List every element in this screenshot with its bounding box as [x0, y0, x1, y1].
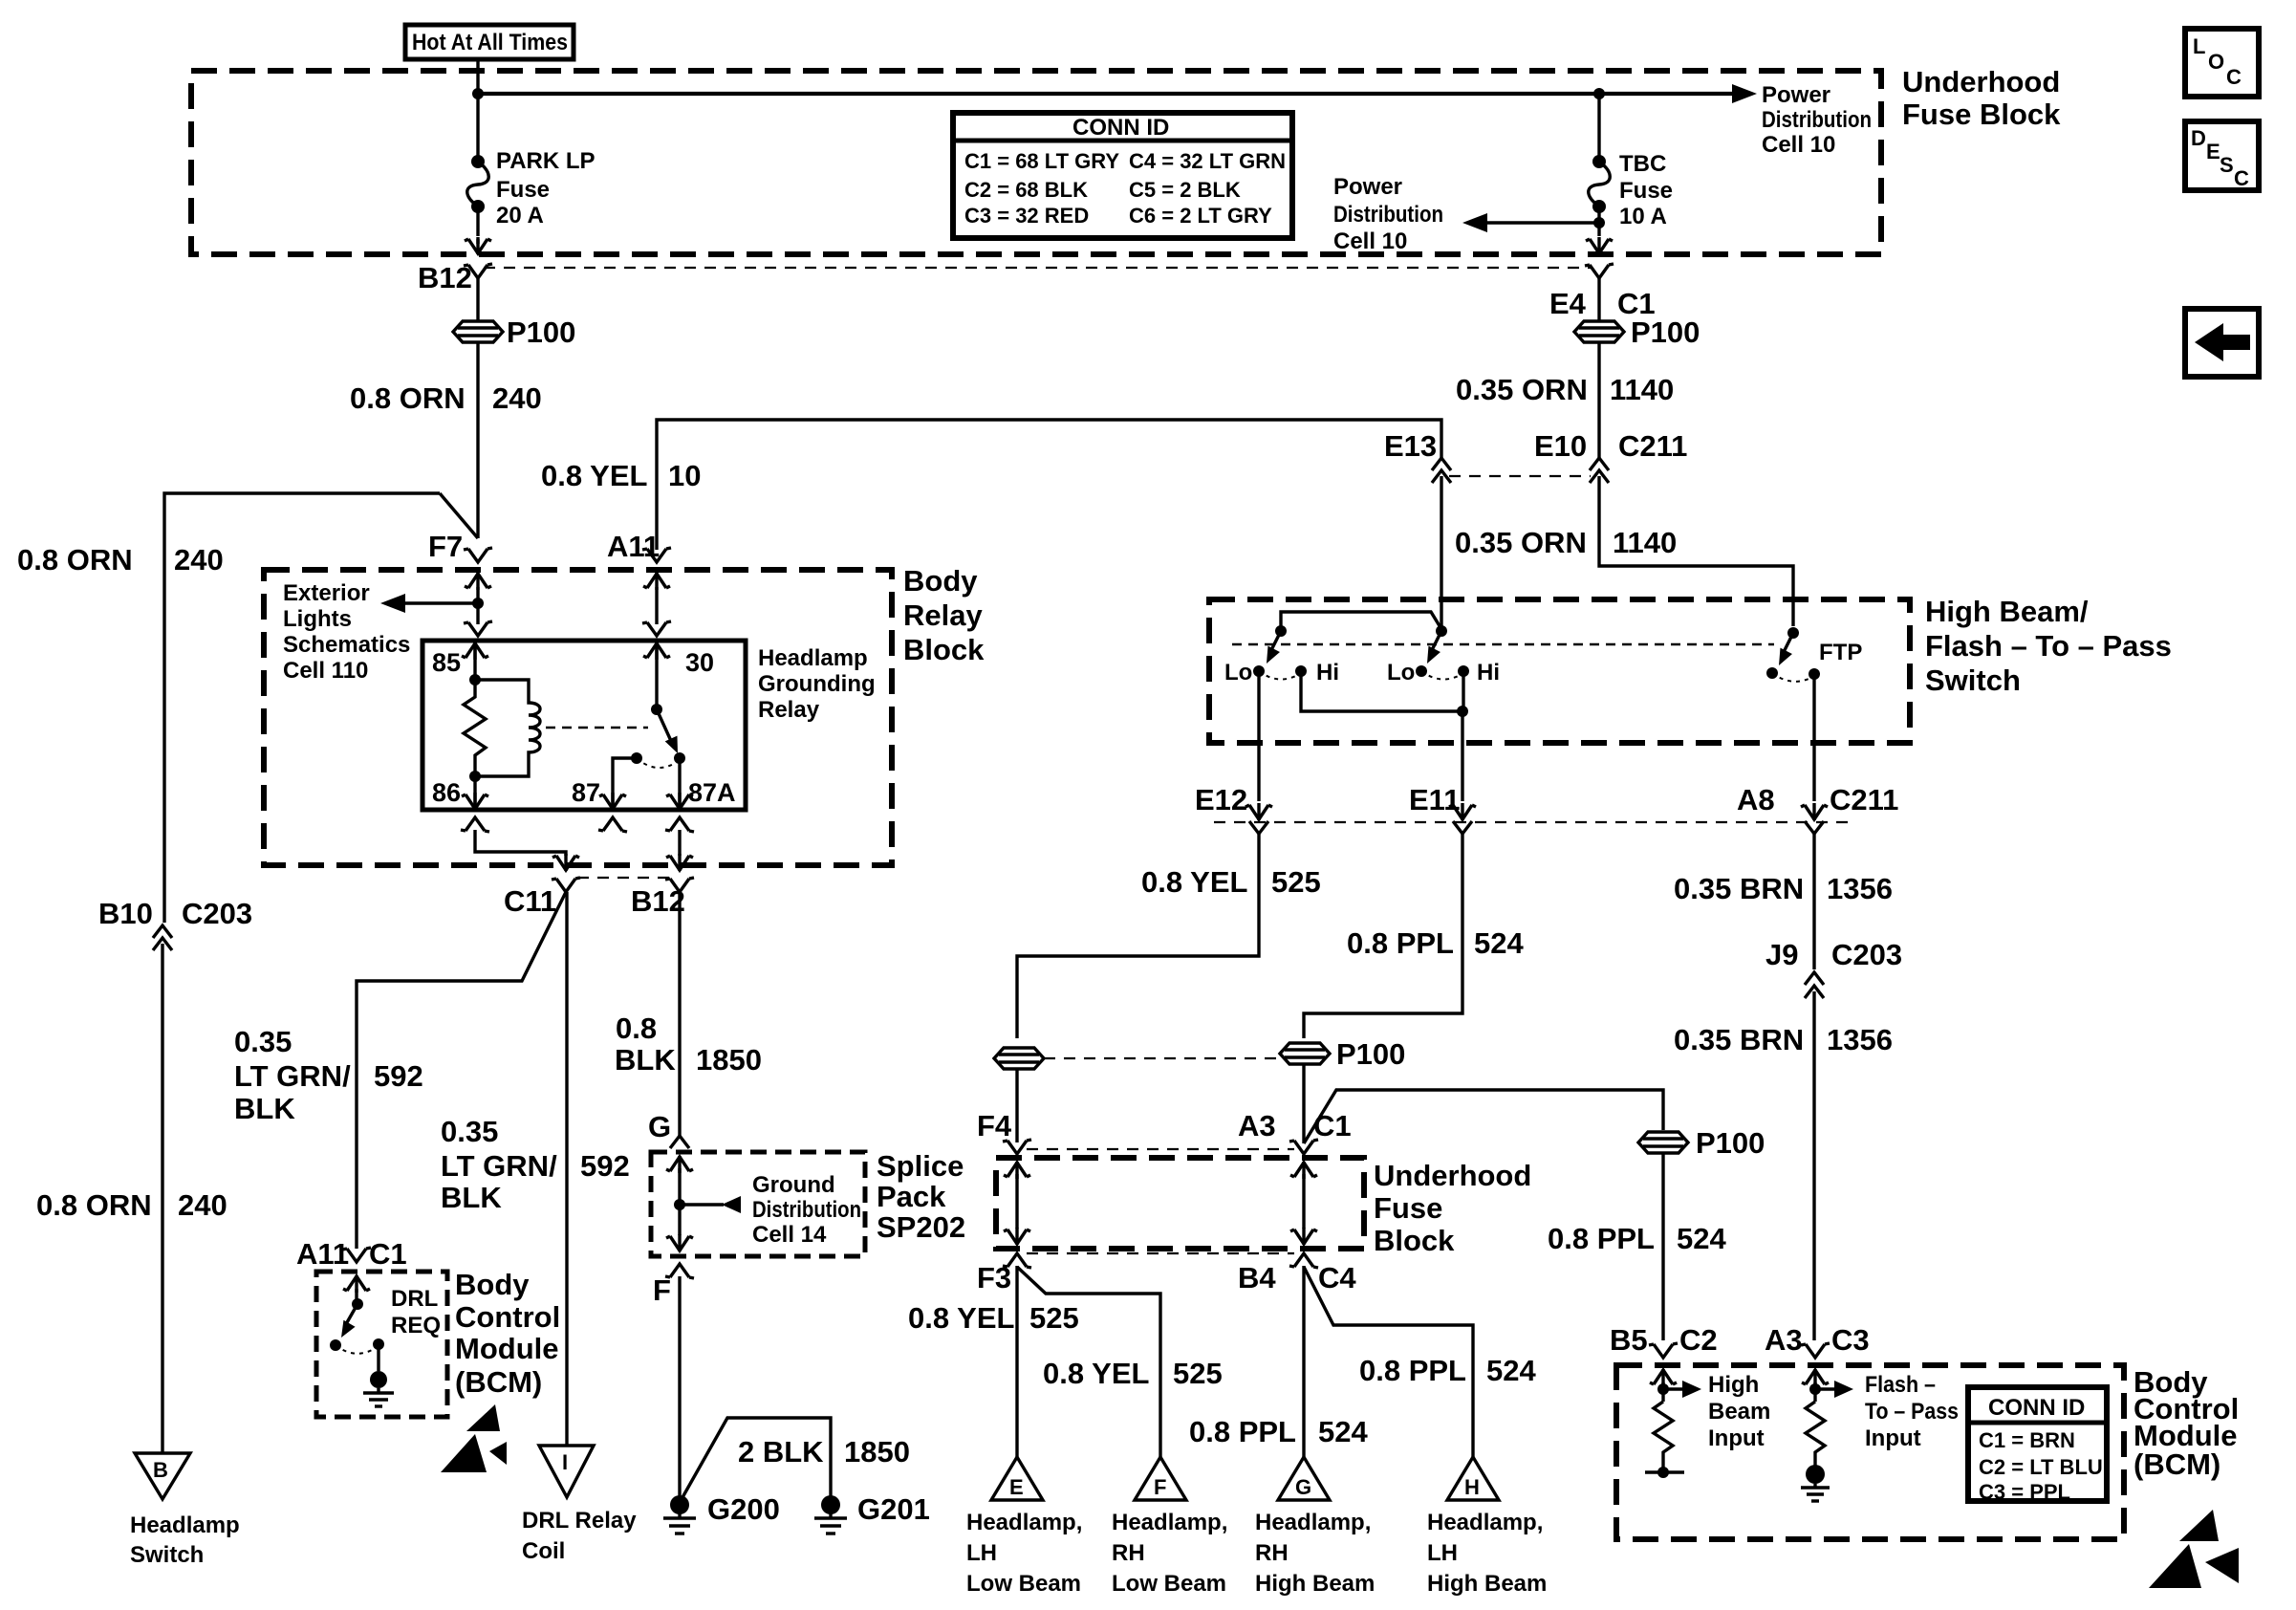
- fuse path (low beam) through block: [1004, 1162, 1030, 1179]
- svg-text:Lo: Lo: [1387, 660, 1415, 685]
- contact Hi (sw1): [1295, 665, 1307, 677]
- ground G201: [821, 1495, 840, 1514]
- svg-text:High Beam: High Beam: [1427, 1571, 1547, 1597]
- svg-text:SP202: SP202: [877, 1210, 965, 1244]
- node: Hi bus junction: [1457, 706, 1468, 717]
- svg-text:P100: P100: [1631, 315, 1700, 349]
- svg-text:H: H: [1464, 1475, 1480, 1499]
- connector P100 (pass-through, PARK LP feed): [453, 321, 503, 342]
- svg-text:240: 240: [174, 543, 224, 577]
- svg-text:Splice: Splice: [877, 1149, 964, 1183]
- dashed tie between P100 connectors: [1044, 1057, 1279, 1059]
- svg-text:Ground: Ground: [752, 1172, 835, 1198]
- contact 87: [631, 752, 642, 764]
- svg-text:87A: 87A: [688, 778, 736, 807]
- svg-text:Fuse: Fuse: [1374, 1191, 1442, 1225]
- wire F7 into block: [465, 573, 491, 590]
- svg-text:1356: 1356: [1827, 872, 1893, 905]
- low/high switch 1 pivot: [1275, 625, 1287, 637]
- DRL contact right: [373, 1338, 384, 1350]
- svg-text:L: L: [2193, 34, 2205, 58]
- DRL switch pivot: [352, 1298, 363, 1310]
- wire 0.8 ORN 240 down to headlamp switch: [161, 944, 163, 1453]
- ground (flash-to-pass): [1806, 1465, 1825, 1484]
- connector P100 (high beam BCM branch): [1638, 1132, 1688, 1153]
- svg-text:525: 525: [1173, 1357, 1223, 1390]
- svg-text:Flash –: Flash –: [1865, 1372, 1936, 1398]
- svg-text:Input: Input: [1708, 1425, 1765, 1451]
- svg-text:0.8 YEL: 0.8 YEL: [908, 1301, 1014, 1335]
- svg-text:Body: Body: [455, 1268, 530, 1301]
- FTP arm: [1784, 633, 1793, 652]
- wire 87A output to B12: [678, 830, 681, 856]
- switch 1 arm: [1271, 631, 1281, 650]
- svg-text:D: D: [2191, 126, 2206, 150]
- wire P100 to A3/C1: [1302, 1064, 1305, 1143]
- connector P100 (high beam feed): [1280, 1043, 1330, 1064]
- svg-text:1850: 1850: [696, 1043, 762, 1077]
- node high beam input: [1657, 1383, 1669, 1395]
- svg-text:Relay: Relay: [758, 697, 820, 723]
- wire FTP output to A8: [1812, 674, 1815, 801]
- wire 0.8 YEL 525 from E12: [1017, 834, 1259, 1038]
- dotted alternate position arc: [637, 758, 680, 768]
- connector C11: [552, 878, 580, 892]
- ESD symbol (right BCM): [2179, 1510, 2219, 1541]
- relay switch pivot: [651, 704, 662, 715]
- svg-text:CONN ID: CONN ID: [1988, 1395, 2085, 1421]
- svg-text:A3: A3: [1238, 1109, 1276, 1142]
- wire B12 to P100: [476, 278, 479, 321]
- svg-text:525: 525: [1029, 1301, 1079, 1335]
- svg-text:P100: P100: [1336, 1037, 1405, 1071]
- svg-text:B5: B5: [1610, 1323, 1648, 1357]
- node: TBC feed junction on bus: [1593, 88, 1605, 99]
- high beam input wire: [1650, 1369, 1677, 1386]
- svg-text:RH: RH: [1112, 1540, 1145, 1566]
- svg-text:B: B: [153, 1458, 168, 1482]
- wire Hi2 down: [1462, 671, 1464, 711]
- svg-text:A11: A11: [296, 1237, 349, 1271]
- node: dimmer feed junction: [1436, 625, 1447, 637]
- wire P100 to F4: [1015, 1068, 1018, 1142]
- arrow to Power Distribution Cell 10: [1732, 84, 1757, 103]
- fuse PARK LP 20 A: [471, 155, 485, 168]
- wire 86 output to C11: [475, 830, 566, 856]
- svg-text:RH: RH: [1255, 1540, 1289, 1566]
- svg-text:0.8 YEL: 0.8 YEL: [1141, 865, 1247, 899]
- low/high switch 2 arm: [1432, 631, 1441, 650]
- svg-text:C2: C2: [1679, 1323, 1718, 1357]
- CONN ID table (fuse block): [953, 113, 1292, 238]
- svg-text:REQ: REQ: [391, 1313, 441, 1338]
- FTP contact right: [1809, 668, 1820, 680]
- node: coil/resistor junction bottom: [469, 771, 481, 782]
- Body Control Module (BCM) dashed box: [1616, 1365, 2124, 1539]
- node: coil/resistor junction top: [469, 674, 481, 685]
- arrow Flash-To-Pass Input: [1815, 1387, 1834, 1390]
- svg-text:C4 = 32 LT GRN: C4 = 32 LT GRN: [1129, 149, 1286, 173]
- wire 87A output 0.8 BLK 1850 to splice pack: [678, 892, 681, 1136]
- branch from A3/C1 to BCM high beam input: [1304, 1090, 1663, 1143]
- svg-text:Grounding: Grounding: [758, 671, 876, 697]
- svg-text:P100: P100: [1696, 1126, 1765, 1160]
- CONN ID table (BCM): [1968, 1387, 2107, 1501]
- svg-text:Fuse Block: Fuse Block: [1902, 98, 2061, 131]
- splice bus out: [666, 1234, 693, 1251]
- contact Lo (sw1): [1253, 665, 1265, 677]
- svg-text:1356: 1356: [1827, 1023, 1893, 1056]
- LOC box: [2185, 29, 2259, 97]
- connector H: Headlamp LH High Beam: [1447, 1457, 1499, 1500]
- svg-text:1140: 1140: [1613, 526, 1677, 559]
- svg-text:High Beam/: High Beam/: [1925, 595, 2089, 628]
- connector E: Headlamp LH Low Beam: [991, 1457, 1043, 1500]
- ground in BCM (DRL REQ): [377, 1344, 379, 1371]
- svg-text:Headlamp: Headlamp: [130, 1512, 240, 1538]
- connector F (splice pack out): [665, 1264, 694, 1278]
- svg-text:BLK: BLK: [441, 1181, 502, 1214]
- svg-text:1140: 1140: [1610, 373, 1674, 406]
- svg-text:DRL Relay: DRL Relay: [522, 1508, 637, 1534]
- FTP switch pivot: [1787, 627, 1799, 639]
- svg-text:Hi: Hi: [1316, 660, 1339, 685]
- arrow down at fuse block exit B12: [465, 237, 491, 254]
- svg-text:O: O: [2208, 50, 2224, 74]
- svg-text:C3 = 32 RED: C3 = 32 RED: [964, 204, 1089, 228]
- svg-text:C1: C1: [369, 1237, 407, 1271]
- svg-text:240: 240: [492, 381, 542, 415]
- svg-text:0.8 PPL: 0.8 PPL: [1347, 926, 1454, 960]
- svg-text:10 A: 10 A: [1619, 204, 1667, 229]
- resistor (flash-to-pass input): [1806, 1402, 1825, 1466]
- DRL switch arm: [346, 1304, 357, 1324]
- svg-text:LH: LH: [1427, 1540, 1458, 1566]
- svg-text:S: S: [2220, 153, 2234, 177]
- connector E12: [1245, 803, 1272, 820]
- connector B: Headlamp Switch: [135, 1453, 190, 1499]
- svg-text:C5 = 2 BLK: C5 = 2 BLK: [1129, 178, 1241, 202]
- wire: bus down to TBC fuse: [1597, 94, 1600, 162]
- svg-text:B12: B12: [418, 261, 472, 294]
- svg-text:G: G: [648, 1110, 671, 1143]
- svg-text:Flash – To – Pass: Flash – To – Pass: [1925, 629, 2172, 663]
- svg-text:86: 86: [432, 778, 461, 807]
- resistor (relay suppression): [464, 680, 486, 776]
- svg-text:Hot At All Times: Hot At All Times: [412, 30, 568, 55]
- connector A3 / C1: [1289, 1140, 1318, 1154]
- dotted arc sw1: [1259, 671, 1301, 680]
- connector G (splice pack): [670, 1136, 689, 1148]
- svg-text:C4: C4: [1318, 1261, 1356, 1295]
- wire branch 0.8 PPL 524 to headlamp LH high: [1304, 1267, 1473, 1457]
- svg-text:G: G: [1295, 1475, 1311, 1499]
- svg-text:Low Beam: Low Beam: [1112, 1571, 1226, 1597]
- connector I: DRL Relay Coil: [539, 1446, 594, 1497]
- fuse TBC 10 A: [1592, 155, 1606, 168]
- wire branch 2 BLK 1850 to G201: [682, 1418, 831, 1499]
- connector E11: [1449, 803, 1476, 820]
- svg-text:C3: C3: [1831, 1323, 1870, 1357]
- svg-text:525: 525: [1271, 865, 1321, 899]
- svg-text:Fuse: Fuse: [496, 177, 550, 203]
- DRL contact left: [330, 1339, 341, 1351]
- back-arrow box: [2185, 309, 2259, 377]
- svg-text:Input: Input: [1865, 1425, 1921, 1451]
- wire 0.8 PPL 524 to headlamp RH high: [1302, 1266, 1305, 1457]
- connector B4 / C4: [1289, 1253, 1318, 1268]
- connector G: Headlamp RH High Beam: [1278, 1457, 1330, 1500]
- svg-text:Cell 14: Cell 14: [752, 1222, 827, 1248]
- connector interface line C211 (E12/E11/A8): [1214, 821, 1854, 823]
- svg-text:Underhood: Underhood: [1902, 65, 2060, 98]
- BCM DRL REQ dashed box: [316, 1272, 447, 1417]
- svg-text:Body: Body: [903, 564, 978, 598]
- svg-text:0.35 BRN: 0.35 BRN: [1674, 872, 1804, 905]
- svg-text:0.8 YEL: 0.8 YEL: [541, 459, 647, 492]
- svg-text:Headlamp,: Headlamp,: [1112, 1510, 1227, 1535]
- node: splice junction: [674, 1199, 685, 1210]
- svg-text:Power: Power: [1762, 82, 1830, 108]
- svg-text:Headlamp,: Headlamp,: [1427, 1510, 1543, 1535]
- wire: diagonal joining F7 drop: [440, 493, 478, 538]
- relay coil: [475, 680, 540, 776]
- svg-text:High Beam: High Beam: [1255, 1571, 1375, 1597]
- ground G200: [670, 1495, 689, 1514]
- svg-text:E11: E11: [1409, 783, 1460, 816]
- connector A8 / C211: [1801, 803, 1828, 820]
- wire 0.8 YEL 525 to headlamp LH low: [1015, 1266, 1018, 1457]
- svg-text:A3: A3: [1765, 1323, 1803, 1357]
- svg-text:F7: F7: [428, 530, 463, 563]
- svg-text:A8: A8: [1737, 783, 1775, 816]
- svg-text:TBC: TBC: [1619, 151, 1666, 177]
- svg-text:Distribution: Distribution: [752, 1197, 861, 1223]
- wire 0.35 LT GRN/BLK 592 to DRL relay coil: [565, 892, 568, 1446]
- terminator bar: [1645, 1470, 1684, 1473]
- relay switch arm: [657, 709, 671, 741]
- wire: TBC fuse output to E4: [1597, 207, 1600, 236]
- Hot At All Times label box: [405, 25, 574, 59]
- Body Relay Block dashed box: [264, 570, 892, 865]
- svg-text:0.35 ORN: 0.35 ORN: [1455, 526, 1587, 559]
- wire: branch to headlamp switch (0.8 ORN 240): [164, 493, 440, 923]
- wire E4 to P100: [1597, 278, 1600, 321]
- svg-text:C2 = LT BLU: C2 = LT BLU: [1979, 1455, 2103, 1479]
- svg-text:0.35: 0.35: [441, 1115, 498, 1148]
- svg-text:C203: C203: [1831, 938, 1902, 971]
- svg-text:F4: F4: [977, 1109, 1012, 1142]
- svg-text:E10: E10: [1534, 429, 1587, 463]
- svg-text:Lights: Lights: [283, 606, 352, 632]
- wire branch 0.8 YEL 525 to headlamp RH low: [1017, 1267, 1160, 1457]
- svg-text:85: 85: [432, 648, 461, 677]
- splice bus in: [666, 1156, 693, 1173]
- connector B10 / C203: [153, 925, 172, 938]
- connector A11 / C1 (BCM): [342, 1248, 371, 1262]
- contact Hi (sw2): [1458, 665, 1469, 677]
- wire from Hot At All Times into fuse block: [476, 59, 479, 162]
- svg-text:Exterior: Exterior: [283, 580, 370, 606]
- wire A11 into block: [643, 573, 670, 590]
- connector F3: [1003, 1253, 1031, 1268]
- svg-text:0.8 ORN: 0.8 ORN: [17, 543, 133, 577]
- svg-text:C6 = 2 LT GRY: C6 = 2 LT GRY: [1129, 204, 1272, 228]
- svg-text:P100: P100: [507, 315, 575, 349]
- svg-text:C211: C211: [1618, 429, 1687, 463]
- svg-text:Distribution: Distribution: [1333, 202, 1443, 228]
- wire: power bus to Power Distribution: [478, 92, 1734, 96]
- svg-text:Switch: Switch: [130, 1542, 204, 1568]
- svg-text:High: High: [1708, 1372, 1759, 1398]
- connector interface C211 (E13/E10): [1449, 475, 1591, 477]
- Underhood Fuse Block (top) dashed box: [191, 71, 1881, 254]
- svg-text:0.35 ORN: 0.35 ORN: [1456, 373, 1588, 406]
- svg-text:20 A: 20 A: [496, 203, 544, 228]
- dashed actuation link coil to switch: [546, 727, 648, 729]
- wire + arrow to Power Distribution Cell 10 (left): [1487, 221, 1599, 224]
- svg-text:Coil: Coil: [522, 1538, 565, 1564]
- svg-text:C1 = BRN: C1 = BRN: [1979, 1428, 2075, 1452]
- svg-text:C203: C203: [182, 897, 252, 930]
- svg-text:LT GRN/: LT GRN/: [234, 1059, 351, 1093]
- svg-text:B4: B4: [1238, 1261, 1276, 1295]
- contact 87A: [674, 752, 685, 764]
- connector interface below fuse block: [1027, 1252, 1294, 1254]
- svg-text:Headlamp,: Headlamp,: [1255, 1510, 1371, 1535]
- svg-text:0.8 PPL: 0.8 PPL: [1359, 1354, 1466, 1387]
- svg-text:G201: G201: [857, 1492, 930, 1526]
- svg-text:Beam: Beam: [1708, 1399, 1770, 1425]
- svg-text:30: 30: [685, 648, 714, 677]
- wire 0.8 PPL 524 from E11: [1304, 834, 1462, 1038]
- svg-text:Low Beam: Low Beam: [966, 1571, 1081, 1597]
- svg-text:LH: LH: [966, 1540, 997, 1566]
- wire Hi output to E11: [1461, 711, 1463, 801]
- svg-text:Lo: Lo: [1224, 660, 1252, 685]
- svg-text:0.8 ORN: 0.8 ORN: [36, 1188, 152, 1222]
- svg-text:1850: 1850: [844, 1435, 910, 1469]
- svg-text:524: 524: [1677, 1222, 1726, 1255]
- svg-text:E13: E13: [1384, 429, 1437, 463]
- arrow to Exterior Lights Schematics: [405, 601, 478, 604]
- svg-text:BLK: BLK: [234, 1092, 295, 1125]
- svg-text:Block: Block: [903, 633, 985, 666]
- svg-text:C: C: [2226, 65, 2242, 89]
- connector B12 (relay output): [665, 878, 694, 892]
- wire E13 down into switch: [1440, 476, 1442, 631]
- connector B12: [464, 264, 492, 278]
- High Beam / Flash-To-Pass Switch dashed box: [1209, 599, 1910, 743]
- wire 0.8 PPL 524 to B5: [1661, 1153, 1664, 1340]
- svg-text:592: 592: [374, 1059, 423, 1093]
- svg-text:CONN ID: CONN ID: [1072, 115, 1169, 141]
- svg-text:Cell 110: Cell 110: [283, 658, 368, 684]
- svg-text:F: F: [653, 1273, 671, 1307]
- connector interface line below fuse block: [484, 267, 1592, 269]
- svg-text:0.8 PPL: 0.8 PPL: [1548, 1222, 1655, 1255]
- svg-text:(BCM): (BCM): [2134, 1447, 2220, 1481]
- lead to Ground Distribution Cell 14: [680, 1203, 724, 1206]
- svg-text:E: E: [2206, 140, 2220, 163]
- svg-text:Pack: Pack: [877, 1180, 946, 1213]
- svg-text:J9: J9: [1765, 938, 1798, 971]
- wire 0.35 ORN 1140 from E10 to FTP switch: [1599, 476, 1793, 626]
- svg-text:Fuse: Fuse: [1619, 178, 1673, 204]
- DESC box: [2185, 121, 2259, 190]
- svg-text:87: 87: [572, 778, 600, 807]
- wire link between switch poles: [1281, 612, 1441, 631]
- svg-text:0.8 PPL: 0.8 PPL: [1189, 1415, 1296, 1448]
- ESD symbol (left BCM): [466, 1404, 500, 1431]
- dotted arc sw2: [1421, 671, 1463, 680]
- svg-text:To – Pass: To – Pass: [1865, 1399, 1959, 1425]
- svg-text:I: I: [562, 1450, 568, 1474]
- node: bus junction at PARK LP feed: [472, 88, 484, 99]
- svg-text:524: 524: [1318, 1415, 1368, 1448]
- resistor (high beam input): [1654, 1402, 1673, 1472]
- svg-text:FTP: FTP: [1819, 640, 1862, 665]
- svg-text:(BCM): (BCM): [455, 1365, 542, 1399]
- wire 0.8 YEL 10 from A11 up and over to E13: [657, 420, 1441, 550]
- svg-text:Control: Control: [455, 1300, 560, 1334]
- svg-text:524: 524: [1474, 926, 1524, 960]
- svg-text:C2 = 68 BLK: C2 = 68 BLK: [964, 178, 1088, 202]
- fuse path (high beam) through block: [1290, 1162, 1317, 1179]
- svg-text:C1 = 68 LT GRY: C1 = 68 LT GRY: [964, 149, 1119, 173]
- relay socket forks: [464, 621, 492, 636]
- connector interface below relay block: [577, 877, 669, 879]
- svg-text:0.8 ORN: 0.8 ORN: [350, 381, 466, 415]
- svg-text:Block: Block: [1374, 1224, 1455, 1257]
- svg-text:G200: G200: [707, 1492, 780, 1526]
- svg-text:E4: E4: [1549, 287, 1587, 320]
- svg-text:240: 240: [178, 1188, 227, 1222]
- svg-text:B10: B10: [98, 897, 153, 930]
- dashed gang link across switch sections: [1232, 643, 1774, 646]
- connector B5 / C2: [1649, 1343, 1678, 1358]
- Underhood Fuse Block (bottom) dashed box: [996, 1158, 1364, 1249]
- svg-text:Module: Module: [455, 1332, 559, 1365]
- wire: fuse output to B12: [476, 207, 479, 236]
- svg-text:Cell 10: Cell 10: [1762, 132, 1835, 158]
- connector P100 (low beam feed): [994, 1048, 1044, 1069]
- connector E13: [1432, 458, 1451, 470]
- svg-text:Switch: Switch: [1925, 664, 2021, 697]
- connector F: Headlamp RH Low Beam: [1135, 1457, 1186, 1500]
- wire 0.35 BRN 1356 from A8 to J9: [1812, 834, 1815, 969]
- svg-text:DRL: DRL: [391, 1286, 438, 1312]
- svg-text:Headlamp: Headlamp: [758, 645, 868, 671]
- connector J9 / C203: [1805, 972, 1824, 985]
- node flash-to-pass input: [1809, 1383, 1821, 1395]
- Splice Pack SP202 dashed box: [651, 1152, 865, 1256]
- svg-text:F3: F3: [977, 1261, 1011, 1295]
- wire 0.35 BRN 1356 from J9 to BCM A3/C3: [1812, 991, 1815, 1340]
- wire Hi1 to Hi bus: [1301, 671, 1462, 711]
- svg-text:Schematics: Schematics: [283, 632, 410, 658]
- svg-text:PARK LP: PARK LP: [496, 148, 596, 174]
- svg-text:F: F: [1154, 1475, 1166, 1499]
- contact Lo (sw2): [1416, 665, 1427, 677]
- wire Lo output to E12: [1257, 671, 1260, 801]
- svg-text:C11: C11: [504, 884, 556, 918]
- svg-text:Headlamp,: Headlamp,: [966, 1510, 1082, 1535]
- connector A3 / C3: [1801, 1343, 1830, 1358]
- connector E4 / C1: [1585, 264, 1614, 278]
- dotted arc FTP: [1772, 673, 1814, 682]
- svg-text:Distribution: Distribution: [1762, 107, 1872, 133]
